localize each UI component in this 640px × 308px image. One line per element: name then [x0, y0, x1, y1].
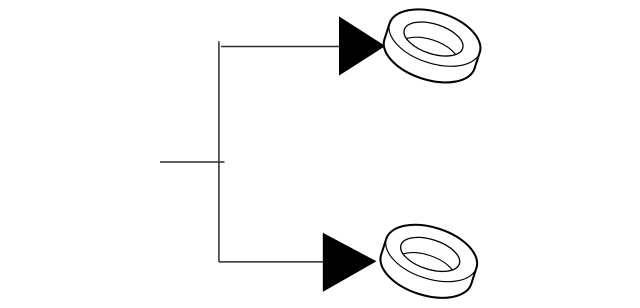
seal ring 1: top face lower edge	[382, 23, 480, 77]
seal ring 1: outer silhouette	[377, 0, 488, 93]
seal ring 2 (bottom)	[373, 214, 484, 308]
seal ring 2: top face lower edge	[378, 239, 476, 293]
seal ring 2: bore inner wall	[392, 246, 459, 293]
leader arrow 1 (top)	[339, 16, 385, 75]
seal ring 2: bore opening	[396, 231, 463, 278]
bottom branch line	[219, 261, 323, 263]
seal ring 1 (top)	[377, 0, 488, 93]
vertical bracket line	[218, 41, 220, 262]
leader arrow 2 (bottom)	[323, 233, 377, 292]
seal ring 1: bore inner wall	[395, 31, 462, 78]
left stub line	[160, 161, 225, 163]
seal ring 2: outer silhouette	[373, 214, 484, 308]
seal ring 1: bore opening	[400, 15, 467, 62]
top branch line	[221, 46, 340, 48]
